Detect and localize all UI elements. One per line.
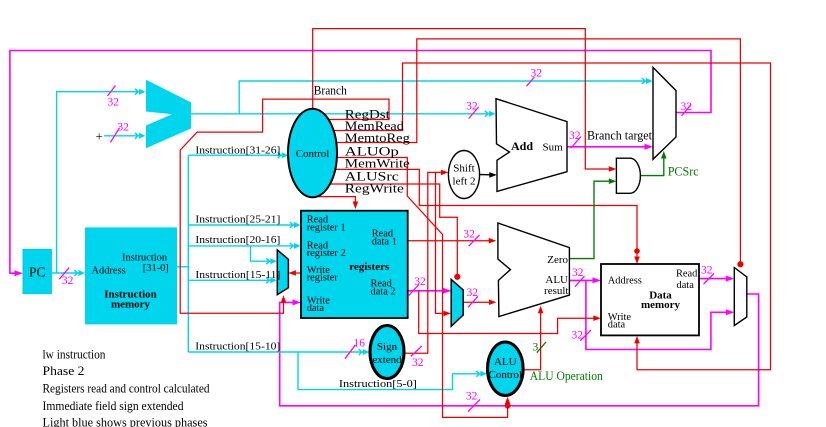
wire: branch target sum (magenta) (567, 146, 651, 148)
wire: PC out to instruction memory address (cyan) (51, 81, 650, 390)
svg-text:register: register (307, 273, 339, 284)
svg-text:Address: Address (608, 276, 642, 287)
svg-text:memory: memory (641, 299, 681, 311)
arrow down into data memory top (MemWrite) (634, 257, 640, 265)
svg-text:Shift: Shift (453, 162, 474, 174)
wire: Instruction[25-21] to read register 1 (cyan) (188, 224, 298, 226)
arrow up into ALU bottom (ALU control lines) (538, 306, 544, 314)
arrow into PC+4 adder bottom input (cyan chevron) (135, 133, 146, 139)
svg-text:32: 32 (466, 101, 478, 113)
wire: write register arrow line from registers to RegDst mux (291, 272, 302, 274)
arrow into Sign extend (cyan chevron) (359, 349, 370, 355)
bus width slash PC out with label 32 (59, 268, 73, 287)
arrow into ALU control (cyan chevron) (476, 371, 487, 377)
sign extend oval (370, 326, 404, 379)
wire: MemWrite from Control to data memory top (335, 169, 637, 261)
arrow into ALUSrc mux input1 (443, 311, 451, 317)
arrow into shift left 2 (441, 170, 449, 176)
data memory box (601, 264, 699, 335)
PC box (23, 249, 51, 293)
svg-text:Phase 2: Phase 2 (43, 364, 85, 378)
PC+4 adder (cyan ALU shape) (146, 80, 191, 149)
svg-text:Instruction[15-11]: Instruction[15-11] (195, 269, 280, 281)
bus width slash ALU result with label 32 (572, 267, 585, 287)
svg-text:MemtoReg: MemtoReg (345, 131, 411, 145)
wire: ALU control output to ALU bottom (523, 309, 541, 370)
wire: Branch from Control top to AND gate (313, 29, 614, 169)
green wires (569, 154, 663, 259)
branch Add ALU shape (496, 99, 567, 192)
bus width slash ALUSrc mux output with label 32 (467, 287, 479, 307)
svg-text:32: 32 (569, 130, 581, 142)
AND gate (616, 158, 640, 193)
arrow into registers Write data (293, 299, 302, 305)
arrow into ALUSrc mux input0 (443, 288, 452, 294)
bus width slash memory read data with label 32 (701, 265, 714, 285)
wire: new PC (magenta, mux output to PC around border) (10, 51, 711, 274)
shift left 2 oval (448, 151, 479, 199)
svg-text:32: 32 (463, 228, 475, 240)
svg-text:Branch: Branch (314, 84, 348, 98)
svg-text:32: 32 (414, 276, 426, 288)
svg-text:Address: Address (92, 266, 126, 277)
arrow into data memory Write data (593, 315, 601, 321)
arrow into MemtoReg mux input1 (726, 309, 735, 315)
svg-text:ALU: ALU (494, 356, 517, 368)
svg-text:Read: Read (676, 269, 698, 280)
wire: Instruction[20-16] branch to RegDst mux input0 (cyan) (251, 246, 276, 261)
arrow up into data memory bottom (MemRead) (634, 336, 640, 344)
arrow into AND gate input0 (609, 166, 617, 172)
wire: instruction memory output stub (cyan) (177, 266, 188, 268)
bus width slash PC+4 line to PCSrc mux with label 32 (527, 68, 543, 87)
svg-text:32: 32 (531, 68, 543, 80)
wire: RegWrite from Control to registers top (317, 197, 355, 206)
bus width slash branch Add input with label 32 (466, 101, 479, 119)
svg-text:Instruction[25-21]: Instruction[25-21] (195, 213, 280, 225)
wire: Instruction[31-26] to Control (cyan) (188, 154, 286, 156)
wire: PC out riser to PC+4 adder (cyan) (57, 92, 144, 273)
svg-text:32: 32 (572, 267, 584, 279)
junction dot MemtoReg mux top (737, 261, 743, 267)
svg-text:Immediate field sign extended: Immediate field sign extended (43, 399, 185, 413)
arrow into RegDst mux input1 (cyan chevron) (266, 277, 277, 283)
svg-text:[31-0]: [31-0] (143, 263, 169, 274)
arrow up into RegDst mux bottom (281, 295, 287, 303)
svg-text:PC: PC (29, 265, 46, 280)
PCSrc mux (white) (653, 67, 676, 159)
svg-text:Control: Control (296, 148, 330, 160)
svg-text:data: data (677, 280, 695, 291)
svg-text:register 1: register 1 (307, 223, 346, 234)
wire: read data 2 (magenta) registers to ALUSrc mux (408, 290, 450, 292)
svg-text:Instruction[5-0]: Instruction[5-0] (339, 378, 417, 390)
wire: ALUSrc mux output to ALU input2 (463, 301, 494, 303)
bus width slash PC+4 bottom input with label 32 (111, 122, 130, 143)
svg-text:3: 3 (533, 342, 539, 354)
arrow into branch Add top input (cyan chevron) (485, 111, 496, 117)
svg-text:32: 32 (466, 391, 478, 403)
arrow into AND gate input1 (609, 178, 617, 184)
bus width slash sign extend input with label 16 (345, 338, 365, 359)
arrow into Read register 1 (cyan chevron) (290, 222, 301, 228)
bus width slash ALU result down branch with label 32 (572, 330, 592, 342)
svg-text:32: 32 (412, 357, 424, 369)
svg-text:Control: Control (488, 369, 522, 381)
wire: PC+4 riser to PCSrc mux input0 (cyan) (239, 81, 650, 114)
Control oval (288, 109, 337, 198)
arrow into Address (593, 277, 602, 283)
wire: MemRead from Control over top right to data memory bottom (333, 63, 771, 370)
wire: Zero from ALU to AND gate input1 (569, 181, 613, 258)
arrow into Read register 2 (cyan chevron) (290, 243, 301, 249)
wire: instruction vertical bus (cyan) (187, 155, 189, 352)
arrow left into RegDst mux output side (288, 270, 296, 276)
bus width slash read data 2 with label 32 (409, 276, 427, 296)
svg-text:32: 32 (62, 275, 74, 287)
arrow into MemtoReg mux input0 (726, 276, 735, 282)
svg-text:memory: memory (111, 299, 151, 311)
svg-text:data: data (608, 320, 626, 331)
wire: ALU result branch down to MemtoReg mux input1 (magenta) (586, 280, 732, 349)
wire: write data branch from read data 2 to data memory (419, 291, 599, 334)
wire: ALU result to data memory address (magenta) (569, 279, 598, 281)
wire: Instruction[5-0] to ALU control (cyan) (298, 352, 485, 390)
svg-text:PCSrc: PCSrc (668, 165, 699, 179)
svg-text:left 2: left 2 (453, 176, 476, 188)
bus width slash PC+4 top input with label 32 (108, 86, 120, 109)
junction dot on MemWrite line above data memory (634, 248, 640, 254)
wire: PC+4 adder output (cyan) (191, 113, 494, 115)
svg-text:Light blue shows previous phas: Light blue shows previous phases (43, 415, 208, 427)
arrow into PCSrc mux input1 (645, 144, 654, 150)
svg-text:data 1: data 1 (372, 237, 397, 248)
svg-text:register 2: register 2 (307, 248, 346, 259)
RegDst mux (cyan) (277, 250, 288, 295)
arrow into PCSrc mux input0 (cyan chevron) (642, 78, 653, 84)
svg-text:lw instruction: lw instruction (43, 347, 107, 361)
wire: MemtoReg from Control over top to MemtoReg mux top (336, 39, 740, 264)
svg-text:registers: registers (349, 261, 390, 273)
svg-text:Instruction[15-10]: Instruction[15-10] (195, 341, 280, 353)
svg-text:RegWrite: RegWrite (345, 182, 405, 196)
wire: sign extend output riser to shift left 2 (405, 172, 446, 353)
svg-text:MemWrite: MemWrite (345, 157, 411, 171)
svg-text:data: data (307, 303, 325, 314)
svg-text:Instruction[31-26]: Instruction[31-26] (195, 145, 280, 157)
wire: +4 constant input (cyan) (104, 135, 144, 137)
svg-text:32: 32 (108, 96, 120, 108)
wire: read data 1 from registers to ALU input1 (408, 240, 494, 242)
junction dot ALUSrc mux top (454, 274, 460, 280)
wire: RegDst from Control around left to RegDst mux bottom (180, 99, 389, 313)
registers box (301, 211, 408, 318)
arrow down into registers top (RegWrite) (353, 202, 359, 210)
wire: AND gate output PCSrc to PCSrc mux bottom (641, 154, 664, 176)
ALU control oval (488, 342, 524, 395)
svg-text:32: 32 (467, 287, 479, 299)
svg-text:32: 32 (572, 330, 584, 342)
svg-text:16: 16 (354, 338, 366, 350)
svg-text:32: 32 (701, 265, 713, 277)
bus width slash sign extend output with label 32 (411, 346, 424, 369)
bus width slash read data 1 with label 32 (463, 228, 479, 246)
wire: write-back from MemtoReg mux to registers write data (magenta) (280, 294, 759, 406)
arrow into instruction memory Address (cyan chevron) (74, 270, 85, 276)
arrow into PC (14, 270, 23, 276)
svg-text:Sum: Sum (543, 141, 564, 153)
wire: Instruction[15-0] to sign extend (cyan) (188, 351, 367, 353)
svg-text:ALU Operation: ALU Operation (530, 369, 604, 383)
svg-text:extend: extend (372, 354, 402, 366)
svg-text:32: 32 (681, 101, 693, 113)
arrow into Control (cyan chevron) (278, 152, 289, 158)
main ALU shape (498, 223, 570, 317)
bus width slash write-back line with label 32 (466, 391, 480, 412)
svg-text:Registers read and control cal: Registers read and control calculated (43, 381, 211, 395)
svg-text:Add: Add (511, 139, 533, 153)
svg-text:Zero: Zero (547, 254, 568, 266)
ALUSrc mux (cyan) (451, 279, 463, 326)
svg-text:data 2: data 2 (371, 286, 396, 297)
bus width slash PCSrc mux output with label 32 (681, 101, 693, 116)
arrow into Add bottom input (489, 172, 497, 178)
red control and datapath wires (180, 29, 770, 418)
arrow into PC+4 adder top input (cyan chevron) (135, 89, 146, 95)
svg-text:Instruction[20-16]: Instruction[20-16] (195, 234, 280, 246)
arrow into ALU input2 (ALUSrc mux out) (489, 299, 497, 305)
wire: Instruction[15-11] to RegDst mux input1 (cyan) (188, 279, 275, 281)
wire: Instruction[20-16] to read register 2 (cyan) (188, 245, 298, 247)
wire: sign extend branch to ALUSrc mux input1 (436, 172, 449, 313)
svg-text:Sign: Sign (377, 341, 398, 353)
wire: shift left 2 output to Add (black) (480, 174, 495, 176)
MemtoReg mux (white) (734, 268, 747, 326)
wire: ALUOp from Control down corridor to ALU control bottom (336, 158, 508, 418)
arrow up into ALU control bottom (ALUOp) (505, 397, 511, 405)
svg-text:+: + (96, 129, 103, 144)
bus width slash Sum output with label 32 (569, 130, 581, 148)
instruction memory box (85, 227, 177, 324)
wire: ALUSrc from Control to ALUSrc mux top (330, 184, 457, 276)
svg-text:Branch target: Branch target (587, 128, 653, 142)
bus width slash ALU control 3 bits (green) (533, 342, 547, 354)
wire: memory read data to MemtoReg mux (magenta) (699, 278, 732, 280)
arrow into RegDst mux input0 (cyan chevron) (266, 258, 277, 264)
arrow up into PCSrc mux bottom (661, 151, 667, 159)
svg-text:result: result (544, 285, 568, 297)
svg-text:32: 32 (117, 122, 129, 134)
arrow into ALU input1 (read data 1) (489, 238, 497, 244)
